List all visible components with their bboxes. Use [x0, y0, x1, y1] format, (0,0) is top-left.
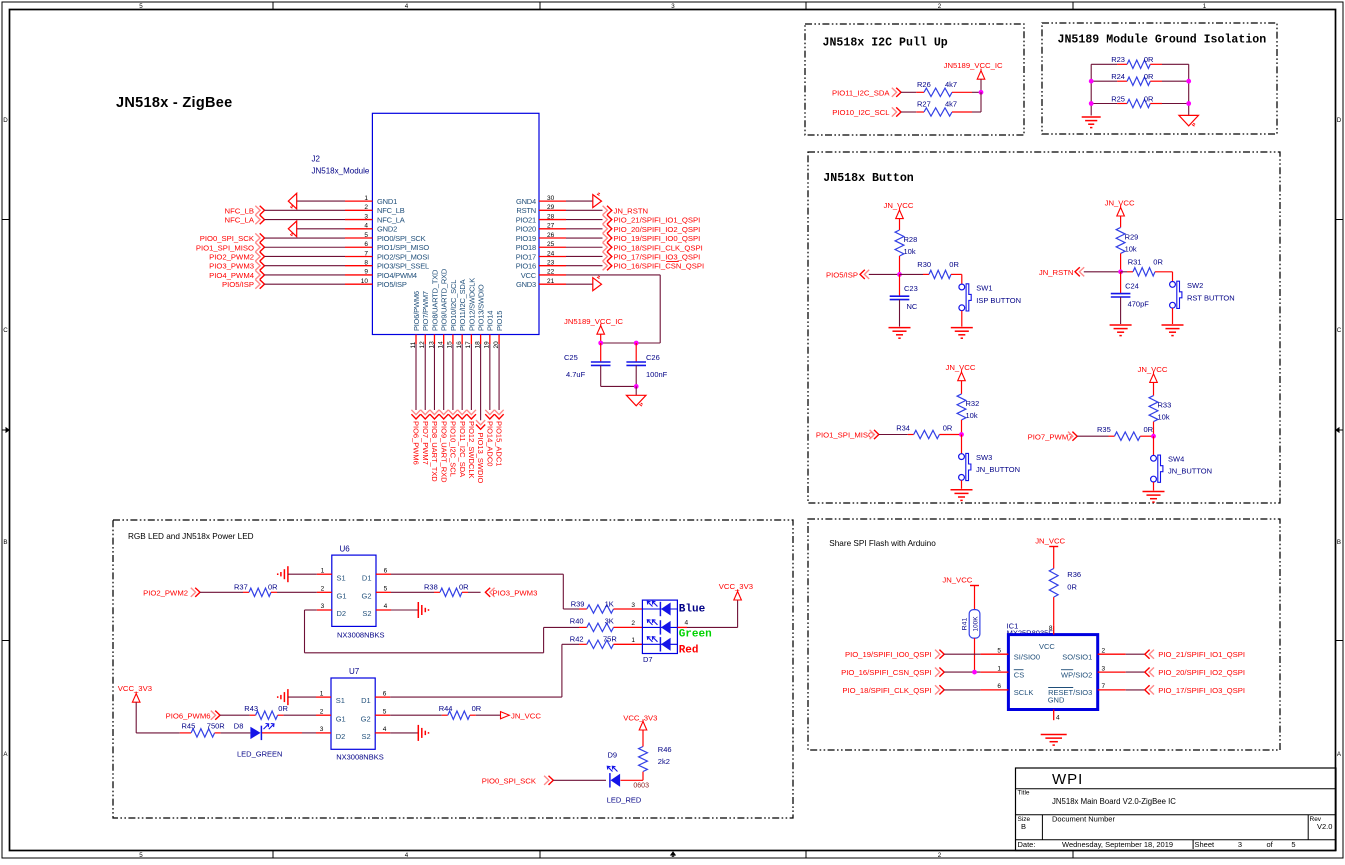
svg-text:S1: S1 [336, 696, 345, 705]
svg-text:Green: Green [679, 629, 712, 641]
svg-text:JN518x_Module: JN518x_Module [312, 167, 370, 176]
svg-text:R37: R37 [234, 582, 248, 591]
svg-text:B: B [1337, 539, 1341, 546]
svg-text:R40: R40 [570, 617, 584, 626]
svg-text:5: 5 [139, 852, 143, 859]
wire ground rail [601, 385, 637, 387]
svg-text:R26: R26 [917, 80, 931, 89]
svg-text:D1: D1 [362, 573, 372, 582]
svg-text:PIO17: PIO17 [516, 252, 536, 261]
svg-text:PIO6_PWM6: PIO6_PWM6 [412, 421, 421, 465]
port PIO6_PWM6 [411, 344, 420, 465]
svg-text:U7: U7 [349, 667, 360, 676]
wire VCC rail [601, 342, 661, 344]
resistor R35 0R [1097, 425, 1154, 440]
svg-text:R45: R45 [182, 722, 196, 731]
svg-text:JN518x Main Board V2.0-ZigBee: JN518x Main Board V2.0-ZigBee IC [1052, 797, 1176, 806]
J2 pin 11 PIO6/PWM6 [410, 291, 421, 348]
resistor R45 750R [136, 722, 225, 738]
svg-text:GND1: GND1 [377, 197, 397, 206]
port PIO12_SWDCLK [467, 344, 476, 479]
svg-text:PIO14: PIO14 [486, 311, 495, 331]
svg-text:1: 1 [364, 195, 368, 202]
svg-text:1: 1 [1203, 3, 1207, 10]
svg-text:PIO9/UARTD_RXD: PIO9/UARTD_RXD [440, 268, 449, 331]
svg-text:3: 3 [631, 602, 635, 609]
junction R32 node [959, 432, 964, 437]
svg-text:JN518x - ZigBee: JN518x - ZigBee [116, 95, 233, 111]
port PIO_19/SPIFI_IO0_QSPI [845, 650, 980, 660]
ground isolation frame [1179, 115, 1199, 126]
svg-text:5: 5 [1291, 840, 1295, 849]
capacitor C24 470pF [1111, 272, 1149, 324]
svg-text:1: 1 [631, 637, 635, 644]
port PIO4_PWM4 [209, 270, 345, 280]
ground isolation earth [1082, 117, 1101, 128]
resistor R25 0R [1091, 94, 1189, 107]
svg-text:21: 21 [547, 278, 555, 285]
port PIO7_PWM7 [421, 344, 430, 465]
svg-text:C23: C23 [904, 284, 918, 293]
ground C24 [1110, 325, 1132, 336]
svg-text:Wednesday, September 18, 2019: Wednesday, September 18, 2019 [1062, 840, 1173, 849]
port PIO10_I2C_SCL [832, 107, 916, 117]
svg-text:WP/SIO2: WP/SIO2 [1061, 670, 1092, 679]
port PIO1_SPI_MISO [816, 430, 908, 440]
wire U6 D2 to R40 [305, 610, 580, 653]
svg-text:4k7: 4k7 [945, 80, 957, 89]
port PIO1_SPI_MISO [196, 243, 345, 253]
port PIO2_PWM2 [143, 588, 243, 598]
svg-text:0R: 0R [1153, 257, 1163, 266]
switch SW2 RST BUTTON [1170, 272, 1235, 309]
svg-text:4: 4 [1056, 715, 1060, 722]
section box JN518x Button [808, 152, 1280, 503]
resistor R23 0R [1091, 55, 1189, 68]
port PIO13_SWDIO [476, 344, 485, 484]
svg-text:R33: R33 [1158, 401, 1172, 410]
svg-text:100K: 100K [972, 616, 979, 632]
ground U6 pin1 [278, 566, 317, 582]
svg-text:PIO19: PIO19 [516, 234, 536, 243]
ground U7 pin4 S2 [390, 725, 428, 741]
junction R26 R27 [979, 90, 984, 95]
port PIO8_UART_TXD [430, 344, 439, 482]
svg-text:NX3008NBKS: NX3008NBKS [336, 753, 384, 762]
svg-text:7: 7 [364, 250, 368, 257]
J2 pin 21 GND3 [516, 278, 566, 289]
svg-text:R43: R43 [244, 704, 258, 713]
J2 pin 25 PIO18 [516, 241, 566, 252]
svg-text:23: 23 [547, 260, 555, 267]
svg-text:PIO8_UART_TXD: PIO8_UART_TXD [430, 421, 439, 482]
svg-text:3: 3 [671, 3, 675, 10]
svg-text:PIO_18/SPIFI_CLK_QSPI: PIO_18/SPIFI_CLK_QSPI [614, 243, 703, 252]
svg-text:6: 6 [384, 567, 388, 574]
svg-text:24: 24 [547, 250, 555, 257]
svg-text:PIO3/SPI_SSEL: PIO3/SPI_SSEL [377, 262, 429, 271]
svg-text:R41: R41 [962, 618, 969, 631]
port PIO_19/SPIFI_IO0_QSPI [566, 233, 700, 243]
svg-text:0R: 0R [943, 423, 953, 432]
J2 pin 12 PIO7/PWM7 [419, 291, 430, 348]
resistor R30 0R [900, 260, 962, 279]
svg-text:D2: D2 [337, 609, 347, 618]
resistor R26 4k7 [916, 80, 981, 97]
J2 pin 23 PIO16 [516, 260, 566, 271]
svg-text:7: 7 [1102, 683, 1106, 690]
svg-text:2: 2 [938, 852, 942, 859]
svg-text:SW2: SW2 [1187, 281, 1203, 290]
svg-text:2k2: 2k2 [658, 757, 670, 766]
svg-text:PIO5/ISP: PIO5/ISP [377, 280, 407, 289]
svg-text:1: 1 [321, 567, 325, 574]
svg-text:R29: R29 [1125, 232, 1139, 241]
wire J2 VCC pin 22 [566, 275, 660, 343]
svg-text:VCC_3V3: VCC_3V3 [719, 582, 753, 591]
svg-text:WPI: WPI [1052, 771, 1083, 788]
svg-text:SW3: SW3 [976, 453, 992, 462]
svg-text:PIO1_SPI_MISO: PIO1_SPI_MISO [196, 243, 254, 252]
svg-text:PIO10_I2C_SCL: PIO10_I2C_SCL [449, 421, 458, 477]
resistor R27 4k7 [916, 100, 981, 117]
led D9 LED_RED 0603 [607, 751, 649, 805]
resistor R28 10k [895, 230, 917, 274]
svg-text:C26: C26 [646, 353, 660, 362]
svg-text:PIO2_PWM2: PIO2_PWM2 [209, 252, 254, 261]
svg-text:D9: D9 [608, 751, 618, 760]
junction isolation left R25 [1089, 101, 1094, 106]
port PIO_21/SPIFI_IO1_QSPI [566, 215, 700, 225]
junction R41 CS [972, 670, 977, 675]
svg-text:PIO18: PIO18 [516, 243, 536, 252]
svg-text:Sheet: Sheet [1195, 840, 1216, 849]
port PIO_18/SPIFI_CLK_QSPI [566, 243, 703, 253]
svg-text:JN_VCC: JN_VCC [1035, 537, 1065, 546]
svg-text:0603: 0603 [633, 783, 649, 790]
svg-text:R30: R30 [917, 260, 931, 269]
svg-text:JN518x I2C Pull Up: JN518x I2C Pull Up [823, 37, 948, 50]
svg-text:3: 3 [1238, 840, 1242, 849]
svg-text:NFC_LB: NFC_LB [377, 206, 405, 215]
svg-text:10k: 10k [1125, 244, 1137, 253]
svg-text:Document Number: Document Number [1052, 815, 1115, 824]
svg-text:PIO6_PWM6: PIO6_PWM6 [166, 711, 211, 720]
svg-text:PIO13_SWDIO: PIO13_SWDIO [476, 433, 485, 484]
svg-text:PIO12_SWDCLK: PIO12_SWDCLK [467, 421, 476, 479]
svg-text:JN5189_VCC_IC: JN5189_VCC_IC [564, 317, 623, 326]
svg-text:10: 10 [361, 278, 369, 285]
svg-text:G1: G1 [337, 591, 347, 600]
svg-text:PIO16: PIO16 [516, 262, 536, 271]
power JN_VCC R36 [1035, 537, 1065, 569]
svg-text:D7: D7 [643, 655, 653, 664]
title block [1016, 768, 1337, 851]
svg-text:D1: D1 [361, 696, 371, 705]
switch SW3 JN_BUTTON [959, 435, 1020, 481]
J2 pin 5 PIO0/SPI_SCK [345, 232, 426, 243]
J2 pin 28 PIO21 [516, 213, 566, 224]
svg-text:1K: 1K [605, 599, 614, 608]
svg-text:PIO0/SPI_SCK: PIO0/SPI_SCK [377, 234, 426, 243]
svg-text:R25: R25 [1111, 94, 1125, 103]
svg-text:PIO15: PIO15 [495, 311, 504, 331]
svg-text:2: 2 [321, 586, 325, 593]
power JN_VCC R32 [946, 363, 976, 394]
junction isolation left R24 [1089, 79, 1094, 84]
svg-text:JN_BUTTON: JN_BUTTON [1168, 467, 1212, 476]
power JN_VCC R41 [942, 575, 979, 609]
svg-text:26: 26 [547, 232, 555, 239]
port PIO11_I2C_SDA [832, 88, 916, 98]
svg-text:PIO14_ADC0: PIO14_ADC0 [485, 421, 494, 466]
svg-text:PIO5/ISP: PIO5/ISP [826, 270, 858, 279]
resistor R36 0R [1049, 569, 1081, 626]
transistor U6 NX3008NBKS [317, 545, 391, 640]
svg-text:2: 2 [320, 708, 324, 715]
port JN_RSTN [1039, 267, 1121, 277]
svg-text:Share SPI Flash with Arduino: Share SPI Flash with Arduino [829, 539, 936, 548]
junction isolation right R25 [1186, 101, 1191, 106]
svg-text:PIO13/SWDIO: PIO13/SWDIO [477, 284, 486, 331]
svg-text:PIO5/ISP: PIO5/ISP [222, 280, 254, 289]
resistor R29 10k [1116, 227, 1138, 271]
svg-text:3: 3 [1102, 665, 1106, 672]
J2 pin 15 PIO10/I2C_SCL [447, 280, 458, 349]
svg-text:G2: G2 [361, 591, 371, 600]
connector J2 JN518x_Module [312, 113, 540, 334]
svg-text:JN_VCC: JN_VCC [946, 363, 976, 372]
svg-text:C24: C24 [1125, 281, 1139, 290]
svg-text:S2: S2 [362, 732, 371, 741]
svg-text:R34: R34 [896, 423, 910, 432]
led D8 LED_GREEN [221, 722, 316, 759]
svg-text:VCC: VCC [521, 271, 537, 280]
svg-text:PIO15_ADC1: PIO15_ADC1 [495, 421, 504, 466]
svg-text:SW4: SW4 [1168, 455, 1184, 464]
svg-text:8: 8 [1049, 625, 1053, 632]
resistor R37 0R [234, 582, 317, 596]
svg-text:JN_VCC: JN_VCC [1105, 198, 1135, 207]
svg-text:J2: J2 [312, 155, 321, 164]
svg-text:6: 6 [383, 690, 387, 697]
port PIO_16/SPIFI_CSN_QSPI [841, 668, 980, 678]
J2 pin 4 GND2 [345, 223, 397, 234]
port PIO0_SPI_SCK [200, 233, 345, 243]
J2 pin 9 PIO4/PWM4 [345, 269, 417, 280]
ground J2 pin 21 [566, 276, 602, 291]
port PIO2_PWM2 [209, 252, 345, 262]
J2 pin 6 PIO1/SPI_MISO [345, 241, 429, 252]
svg-text:JN_BUTTON: JN_BUTTON [976, 465, 1020, 474]
svg-text:3: 3 [320, 726, 324, 733]
J2 pin 14 PIO9/UARTD_RXD [437, 268, 448, 348]
svg-text:R44: R44 [439, 704, 453, 713]
power JN5189_VCC_IC pullup [944, 61, 1003, 92]
svg-text:PIO2/SPI_MOSI: PIO2/SPI_MOSI [377, 252, 429, 261]
svg-text:PIO7_PWM7: PIO7_PWM7 [421, 421, 430, 465]
svg-text:PIO6/PWM6: PIO6/PWM6 [412, 291, 421, 331]
junction isolation right R24 [1186, 79, 1191, 84]
svg-text:JN5189 Module Ground Isolation: JN5189 Module Ground Isolation [1058, 34, 1267, 47]
resistor R32 10k [957, 394, 979, 435]
svg-text:PIO0_SPI_SCK: PIO0_SPI_SCK [482, 776, 537, 785]
svg-text:B: B [1021, 822, 1026, 831]
junction C25 top [598, 341, 603, 346]
power JN_VCC R29 [1105, 198, 1135, 227]
svg-text:SI/SIO0: SI/SIO0 [1014, 653, 1040, 662]
svg-text:JN_RSTN: JN_RSTN [614, 206, 649, 215]
svg-text:JN_VCC: JN_VCC [1138, 365, 1168, 374]
svg-text:PIO8/UARTD_TXD: PIO8/UARTD_TXD [430, 269, 439, 331]
svg-text:3: 3 [321, 603, 325, 610]
svg-text:NX3008NBKS: NX3008NBKS [337, 630, 385, 639]
capacitor C23 NC [890, 274, 918, 326]
port PIO15_ADC1 [494, 344, 503, 466]
ground J2 pin 1 [288, 193, 345, 209]
J2 pin 26 PIO19 [516, 232, 566, 243]
resistor R24 0R [1091, 72, 1189, 85]
port PIO5/ISP [826, 270, 900, 280]
J2 pin 2 NFC_LB [345, 204, 405, 215]
svg-text:C25: C25 [564, 353, 578, 362]
svg-text:4.7uF: 4.7uF [566, 370, 586, 379]
svg-text:2: 2 [1102, 647, 1106, 654]
svg-text:1: 1 [320, 690, 324, 697]
svg-text:5: 5 [139, 3, 143, 10]
port PIO_17/SPIFI_IO3_QSPI [566, 252, 700, 262]
svg-text:PIO_19/SPIFI_IO0_QSPI: PIO_19/SPIFI_IO0_QSPI [614, 234, 701, 243]
svg-text:PIO_17/SPIFI_IO3_QSPI: PIO_17/SPIFI_IO3_QSPI [1158, 686, 1245, 695]
port PIO14_ADC0 [485, 344, 494, 466]
port NFC_LA [225, 215, 345, 225]
port PIO_16/SPIFI_CSN_QSPI [566, 261, 704, 271]
svg-text:R36: R36 [1067, 570, 1081, 579]
svg-text:8: 8 [364, 260, 368, 267]
section box JN5189 Module Ground Isolation [1042, 23, 1277, 134]
svg-text:JN518x Button: JN518x Button [823, 172, 913, 185]
svg-text:PIO7_PWM7: PIO7_PWM7 [1028, 432, 1073, 441]
svg-text:Red: Red [679, 645, 699, 657]
svg-text:JN_VCC: JN_VCC [942, 575, 972, 584]
ground C23 [889, 328, 911, 339]
svg-text:5: 5 [384, 586, 388, 593]
svg-text:NC: NC [907, 302, 918, 311]
svg-text:D2: D2 [336, 732, 346, 741]
svg-text:JN_VCC: JN_VCC [511, 712, 541, 721]
svg-text:R35: R35 [1097, 425, 1111, 434]
svg-text:of: of [1267, 840, 1274, 849]
ground U6 pin4 S2 [391, 602, 429, 618]
resistor R34 0R [896, 423, 961, 438]
J2 pin 10 PIO5/ISP [345, 278, 407, 289]
svg-text:PIO7/PWM7: PIO7/PWM7 [421, 291, 430, 331]
svg-text:3: 3 [364, 213, 368, 220]
svg-text:NFC_LB: NFC_LB [225, 206, 254, 215]
svg-text:S1: S1 [337, 573, 346, 582]
svg-text:PIO12/SWDCLK: PIO12/SWDCLK [467, 278, 476, 331]
svg-text:NFC_LA: NFC_LA [377, 215, 405, 224]
svg-text:0R: 0R [1067, 583, 1077, 592]
svg-text:PIO_20/SPIFI_IO2_QSPI: PIO_20/SPIFI_IO2_QSPI [1158, 668, 1245, 677]
J2 pin 7 PIO2/SPI_MOSI [345, 250, 429, 261]
J2 pin 27 PIO20 [516, 223, 566, 234]
svg-text:PIO3_PWM3: PIO3_PWM3 [493, 589, 538, 598]
resistor R44 0R [390, 704, 500, 719]
port PIO3_PWM3 [209, 261, 345, 271]
svg-text:PIO_18/SPIFI_CLK_QSPI: PIO_18/SPIFI_CLK_QSPI [842, 686, 931, 695]
svg-text:R42: R42 [570, 635, 584, 644]
svg-text:JN5189_VCC_IC: JN5189_VCC_IC [944, 61, 1003, 70]
svg-text:6: 6 [997, 683, 1001, 690]
svg-text:0R: 0R [278, 704, 288, 713]
svg-text:R32: R32 [966, 399, 980, 408]
wire isolation left rail [1090, 64, 1092, 115]
junction R29 node [1118, 269, 1123, 274]
port NFC_LB [225, 206, 345, 216]
svg-text:PIO_20/SPIFI_IO2_QSPI: PIO_20/SPIFI_IO2_QSPI [614, 225, 701, 234]
svg-text:CS: CS [1014, 670, 1024, 679]
port JN_RSTN [566, 206, 648, 216]
svg-text:PIO11_I2C_SDA: PIO11_I2C_SDA [832, 88, 890, 97]
svg-text:R46: R46 [658, 745, 672, 754]
junction R28 node [897, 272, 902, 277]
section box RGB LED and JN518x Power LED [113, 520, 793, 818]
resistor R41 100K [962, 610, 980, 673]
svg-text:750R: 750R [207, 722, 226, 731]
svg-text:D: D [3, 117, 8, 124]
ground C25 C26 [626, 386, 646, 406]
svg-text:GND3: GND3 [516, 280, 536, 289]
ground SW2 [1162, 308, 1184, 336]
ground IC1 [1041, 734, 1067, 745]
svg-text:2: 2 [631, 620, 635, 627]
svg-text:C: C [1337, 327, 1342, 334]
svg-text:0R: 0R [949, 260, 959, 269]
svg-text:0R: 0R [268, 582, 278, 591]
svg-text:PIO1/SPI_MISO: PIO1/SPI_MISO [377, 243, 429, 252]
svg-text:G1: G1 [336, 714, 346, 723]
led D7 RGB [631, 600, 677, 664]
svg-text:2: 2 [364, 204, 368, 211]
svg-text:R38: R38 [424, 582, 438, 591]
svg-text:LED_RED: LED_RED [607, 796, 642, 805]
svg-text:10k: 10k [1158, 413, 1170, 422]
junction ground rail [634, 384, 639, 389]
svg-text:GND4: GND4 [516, 197, 536, 206]
wire U7 D1 to R42 [390, 644, 579, 697]
resistor R46 2k2 [639, 730, 672, 780]
ground J2 pin 4 [288, 221, 345, 237]
section box JN518x I2C Pull Up [805, 24, 1024, 135]
svg-text:PIO_16/SPIFI_CSN_QSPI: PIO_16/SPIFI_CSN_QSPI [841, 668, 932, 677]
svg-text:28: 28 [547, 213, 555, 220]
svg-text:D8: D8 [234, 722, 244, 731]
svg-text:6: 6 [364, 241, 368, 248]
power VCC_3V3 R46 [623, 714, 657, 731]
svg-text:3K: 3K [605, 617, 614, 626]
svg-text:GND: GND [1048, 696, 1065, 705]
J2 pin 24 PIO17 [516, 250, 566, 261]
svg-text:30: 30 [547, 195, 555, 202]
svg-text:0R: 0R [1144, 72, 1154, 81]
svg-text:PIO_16/SPIFI_CSN_QSPI: PIO_16/SPIFI_CSN_QSPI [614, 262, 705, 271]
junction C26 top [634, 341, 639, 346]
svg-text:JN_RSTN: JN_RSTN [1039, 268, 1074, 277]
svg-text:PIO0_SPI_SCK: PIO0_SPI_SCK [200, 234, 255, 243]
J2 pin 13 PIO8/UARTD_TXD [428, 269, 439, 349]
svg-text:PIO11/I2C_SDA: PIO11/I2C_SDA [458, 279, 467, 331]
